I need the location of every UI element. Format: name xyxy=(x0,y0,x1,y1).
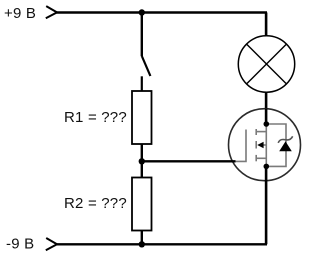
svg-text:R1 = ???: R1 = ??? xyxy=(64,109,127,126)
svg-text:R2 = ???: R2 = ??? xyxy=(64,195,127,212)
svg-text:-9 В: -9 В xyxy=(6,236,34,253)
svg-text:+9 В: +9 В xyxy=(4,5,36,22)
